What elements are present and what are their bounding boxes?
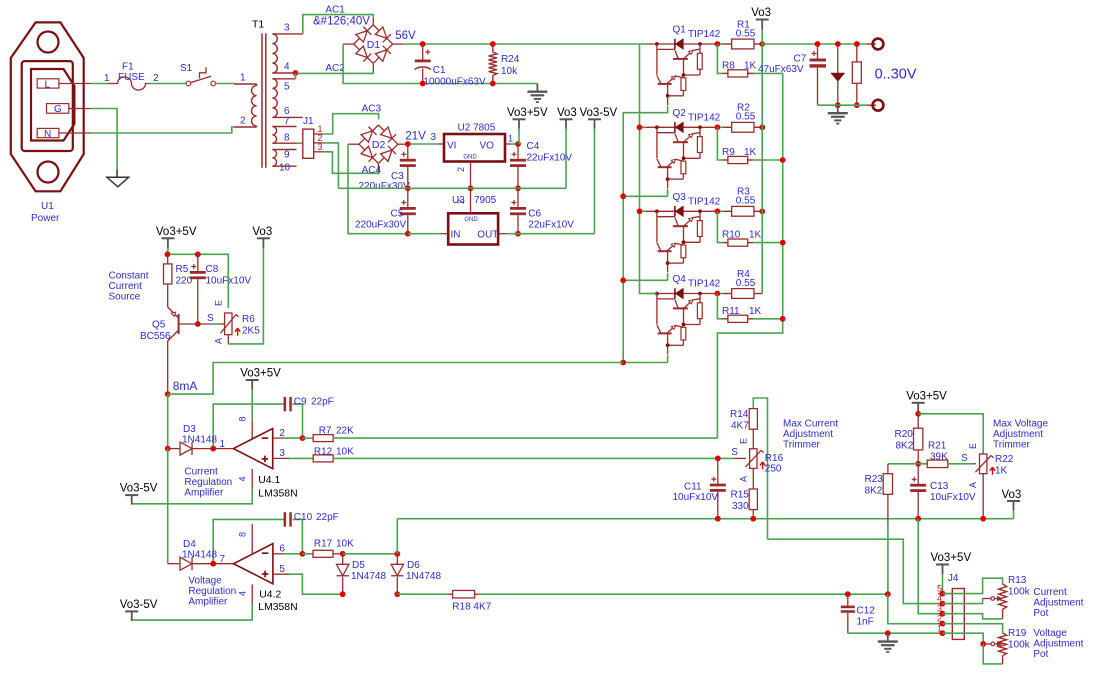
resistor R1 xyxy=(714,19,762,49)
svg-text:C1: C1 xyxy=(433,65,446,76)
wire 8mA node down to amplifiers xyxy=(167,394,169,449)
junction D6 bottom xyxy=(394,591,400,597)
svg-text:R23: R23 xyxy=(865,474,884,485)
svg-text:1nF: 1nF xyxy=(857,617,874,628)
svg-text:R11: R11 xyxy=(722,306,740,317)
svg-text:Voltage: Voltage xyxy=(1033,628,1067,639)
transistor Q1 TIP142 xyxy=(646,25,721,106)
svg-text:Pot: Pot xyxy=(1033,649,1048,660)
svg-text:D6: D6 xyxy=(407,560,420,571)
svg-text:GND: GND xyxy=(463,155,477,161)
svg-text:Adjustment: Adjustment xyxy=(1033,639,1083,650)
svg-text:Current: Current xyxy=(184,466,218,477)
svg-text:BC556: BC556 xyxy=(140,331,171,342)
svg-text:C10: C10 xyxy=(294,512,313,523)
svg-text:0.55: 0.55 xyxy=(736,28,756,39)
wire output top xyxy=(762,43,866,45)
wire U4.2 pin6 xyxy=(273,544,303,555)
wire U4.2 pin5 xyxy=(273,564,343,594)
resistor R20 xyxy=(895,414,923,464)
svg-text:C5: C5 xyxy=(391,209,404,220)
supply Vo3+5V for U4.1 xyxy=(240,368,281,441)
wire C12 to J4 pin1 xyxy=(848,632,938,634)
wire DC minus from D1 to ground rail xyxy=(343,44,537,83)
junction C1 top xyxy=(420,41,426,47)
svg-text:7: 7 xyxy=(284,116,290,127)
base rail xyxy=(623,106,667,363)
svg-text:C8: C8 xyxy=(206,264,219,275)
svg-text:8: 8 xyxy=(284,133,290,144)
svg-text:N: N xyxy=(44,129,51,140)
junction diode bottom xyxy=(835,102,841,108)
wire trimmer E to J4 pin4 xyxy=(768,539,939,603)
svg-text:R13: R13 xyxy=(1008,575,1027,586)
svg-text:1K: 1K xyxy=(749,306,762,317)
svg-text:0.55: 0.55 xyxy=(736,196,756,207)
svg-text:GND: GND xyxy=(464,217,478,223)
wire C13 node to J4 pin3 xyxy=(918,519,938,614)
regulator U2 7805 xyxy=(438,123,518,189)
svg-text:1K: 1K xyxy=(749,230,762,241)
svg-text:220uFx30V: 220uFx30V xyxy=(359,181,410,192)
svg-text:Vo3-5V: Vo3-5V xyxy=(120,483,158,495)
junction R1 right xyxy=(759,41,765,47)
svg-text:2: 2 xyxy=(279,428,285,439)
svg-text:39K: 39K xyxy=(930,452,948,463)
svg-text:Trimmer: Trimmer xyxy=(783,440,821,451)
svg-text:C13: C13 xyxy=(930,481,949,492)
svg-text:100k: 100k xyxy=(1008,587,1031,598)
wire U4.2 pin4 to Vo3-5V xyxy=(132,584,253,620)
wire 0V rail xyxy=(338,187,566,189)
svg-text:Voltage: Voltage xyxy=(188,576,222,587)
label voltage regulation amplifier xyxy=(188,576,236,608)
switch S1 xyxy=(180,63,216,86)
supply Vo3 above 0V rail xyxy=(557,107,577,189)
node label AC4 xyxy=(362,165,382,176)
svg-text:Q5: Q5 xyxy=(152,320,166,331)
junction C5 bottom xyxy=(405,231,411,237)
supply Vo3 right end xyxy=(1002,489,1022,519)
svg-text:R21: R21 xyxy=(928,441,947,452)
svg-text:AC3: AC3 xyxy=(362,103,382,114)
wire U3 OUT to Vo3-5V riser xyxy=(506,129,595,234)
junction R24 bottom xyxy=(490,81,496,87)
wire R19 bottom loop xyxy=(983,644,1002,664)
svg-text:D4: D4 xyxy=(183,539,196,550)
wire D5 to D6 xyxy=(343,553,398,555)
svg-text:D1: D1 xyxy=(367,39,381,51)
supply Vo3-5V right xyxy=(580,107,618,129)
svg-text:1: 1 xyxy=(104,73,110,84)
svg-text:10uFx10V: 10uFx10V xyxy=(930,492,976,503)
zener diode D6 xyxy=(391,551,441,594)
resistor R8 xyxy=(717,44,782,77)
svg-text:5: 5 xyxy=(284,82,290,93)
svg-text:100k: 100k xyxy=(1008,640,1031,651)
resistor R12 xyxy=(313,446,354,462)
wire L to fuse xyxy=(91,83,107,85)
svg-text:D3: D3 xyxy=(183,424,196,435)
transistor Q5 BC556 xyxy=(140,307,211,394)
svg-text:Q2: Q2 xyxy=(673,108,687,119)
capacitor C10 feedback xyxy=(213,512,339,564)
wire J1 pin3 to AC4 xyxy=(323,152,378,174)
earth ground symbol xyxy=(107,170,129,187)
svg-text:Q4: Q4 xyxy=(673,274,687,285)
junction sense rail R11 xyxy=(780,316,786,322)
svg-text:8mA: 8mA xyxy=(173,379,198,393)
diode D4 xyxy=(168,539,218,570)
wire U4.1 pin2 xyxy=(273,428,303,439)
svg-text:R16: R16 xyxy=(765,453,784,464)
svg-text:U2 7805: U2 7805 xyxy=(458,123,496,134)
junction J4 pin3 xyxy=(940,611,946,617)
capacitor C8 xyxy=(190,254,252,324)
svg-text:R20: R20 xyxy=(895,429,914,440)
svg-text:4: 4 xyxy=(237,591,247,596)
junction T1 pin4-pin5 xyxy=(293,70,299,79)
resistor R9 xyxy=(717,127,782,163)
svg-text:A: A xyxy=(968,482,978,488)
svg-text:C6: C6 xyxy=(528,209,541,220)
svg-text:10000uFx63V: 10000uFx63V xyxy=(423,76,486,87)
supply Vo3 top xyxy=(751,7,771,294)
svg-text:R24: R24 xyxy=(501,54,520,65)
protection diode at output xyxy=(831,44,845,105)
svg-text:22pF: 22pF xyxy=(316,512,339,523)
resistor R18 xyxy=(397,590,491,612)
svg-text:6: 6 xyxy=(279,544,285,555)
potentiometer R19 xyxy=(999,628,1031,664)
op-amp U4.2 xyxy=(213,524,297,613)
supply Vo3+5V for current source xyxy=(156,226,197,255)
junction C7 top xyxy=(815,41,821,47)
capacitor C3 xyxy=(359,144,416,192)
svg-text:3: 3 xyxy=(284,23,290,34)
wire Vo3+5V to R22 top xyxy=(918,414,983,454)
junction bleeder top xyxy=(854,41,860,47)
wire G to earth xyxy=(91,109,117,170)
svg-text:1K: 1K xyxy=(744,147,757,158)
svg-text:Vo3: Vo3 xyxy=(252,226,272,238)
label constant current source xyxy=(109,271,149,303)
svg-text:Adjustment: Adjustment xyxy=(993,429,1043,440)
node label AC3 xyxy=(362,103,382,114)
svg-text:2: 2 xyxy=(456,199,466,204)
wire R18 to voltage set node xyxy=(479,593,888,595)
junction pin6 R17 xyxy=(300,551,306,557)
junction U2 output xyxy=(515,141,521,147)
wire 8mA to pass transistor bases xyxy=(168,363,624,395)
svg-text:Vo3-5V: Vo3-5V xyxy=(120,599,158,611)
svg-text:8K2: 8K2 xyxy=(896,441,914,452)
svg-text:R10: R10 xyxy=(722,230,741,241)
svg-text:VI: VI xyxy=(447,140,456,151)
svg-text:10uFx10V: 10uFx10V xyxy=(673,492,719,503)
svg-text:R7: R7 xyxy=(319,425,332,436)
svg-text:0..30V: 0..30V xyxy=(875,66,917,82)
supply Vo3-5V for U4.1 xyxy=(120,483,158,505)
svg-text:TIP142: TIP142 xyxy=(688,197,721,208)
junction R1 left xyxy=(715,41,721,47)
capacitor C13 xyxy=(910,464,976,519)
wire U4.1 pin4 to Vo3-5V xyxy=(132,469,253,504)
svg-text:2: 2 xyxy=(240,116,246,127)
svg-text:AC4: AC4 xyxy=(362,165,382,176)
svg-text:R9: R9 xyxy=(722,147,735,158)
resistor R21 xyxy=(927,441,972,468)
svg-text:S1: S1 xyxy=(180,63,193,74)
svg-text:56V: 56V xyxy=(395,30,416,42)
junction U2 GND on 0V rail xyxy=(468,185,474,191)
svg-text:1K: 1K xyxy=(744,60,757,71)
svg-text:U4.2: U4.2 xyxy=(259,590,281,601)
svg-text:Vo3+5V: Vo3+5V xyxy=(507,107,548,119)
junction collector rail Q3 xyxy=(637,208,643,214)
capacitor C11 xyxy=(673,458,726,518)
svg-text:0.55: 0.55 xyxy=(736,278,756,289)
label max current adjustment trimmer xyxy=(783,419,838,451)
transistor Q3 TIP142 xyxy=(646,192,721,272)
svg-text:Vo3: Vo3 xyxy=(557,107,577,119)
wire fuse to switch xyxy=(149,83,186,85)
output ground symbol xyxy=(828,105,848,123)
svg-text:Vo3+5V: Vo3+5V xyxy=(931,552,972,564)
svg-text:8K2: 8K2 xyxy=(865,486,883,497)
svg-text:LM358N: LM358N xyxy=(258,489,297,500)
svg-text:2: 2 xyxy=(153,73,159,84)
diode D3 xyxy=(165,424,218,455)
trimmer R22 xyxy=(961,443,1014,519)
svg-text:TIP142: TIP142 xyxy=(688,113,721,124)
wire J1 pin1 to AC3 xyxy=(323,114,378,134)
wire D3 to D4 net xyxy=(167,449,169,564)
junction C4 bottom / 0V rail xyxy=(515,185,521,191)
svg-text:10K: 10K xyxy=(336,538,354,549)
label max voltage adjustment trimmer xyxy=(993,419,1048,451)
wire C5 to U3 IN xyxy=(408,233,442,235)
svg-text:1N4748: 1N4748 xyxy=(351,571,386,582)
capacitor C7 xyxy=(758,44,826,105)
label current regulation amplifier xyxy=(184,466,232,498)
svg-text:7905: 7905 xyxy=(474,195,497,206)
junction C11 bottom xyxy=(715,516,721,522)
svg-text:E: E xyxy=(213,300,223,306)
svg-text:A: A xyxy=(738,476,748,482)
svg-text:E: E xyxy=(968,443,978,449)
svg-text:Source: Source xyxy=(109,292,141,303)
wire R6 bottom to Vo3 xyxy=(228,248,263,344)
svg-text:4: 4 xyxy=(284,62,290,73)
wire J1 pin2 to 0V rail xyxy=(323,143,338,188)
svg-text:Constant: Constant xyxy=(109,271,149,282)
svg-text:C9: C9 xyxy=(294,397,307,408)
wire D2 minus to C5 rail xyxy=(348,144,408,234)
wire N to T1 pin2 xyxy=(91,127,233,133)
svg-text:VO: VO xyxy=(480,140,495,151)
fuse F1 xyxy=(104,62,159,91)
junction U4.2 input xyxy=(210,554,225,567)
capacitor C1 xyxy=(415,44,486,87)
svg-text:Vo3+5V: Vo3+5V xyxy=(156,226,197,238)
junction C1 bottom xyxy=(420,81,426,87)
svg-text:Amplifier: Amplifier xyxy=(188,597,228,608)
junction R22 bottom xyxy=(980,516,986,522)
junction C6 bottom / U3 out xyxy=(515,231,521,237)
wire 56V node xyxy=(393,30,640,44)
label 0..30V xyxy=(875,66,917,82)
wire AC1 net xyxy=(303,5,374,34)
wire Q5 base to trimmer R6 xyxy=(211,323,220,325)
svg-text:Current: Current xyxy=(109,281,143,292)
capacitor C9 feedback xyxy=(213,397,334,449)
wire 21V node xyxy=(398,131,438,145)
svg-text:S: S xyxy=(731,447,738,458)
T1 secondary winding pins 3-4 xyxy=(272,23,302,74)
wire J4 pin2 to R19 top xyxy=(943,624,1003,633)
junction base rail Q3 xyxy=(620,277,626,283)
supply Vo3 above R6 xyxy=(252,226,272,248)
supply Vo3+5V max voltage trimmer xyxy=(906,390,947,414)
svg-text:A: A xyxy=(213,338,223,344)
svg-text:4: 4 xyxy=(237,476,247,481)
svg-text:10k: 10k xyxy=(501,66,518,77)
sense rail from base resistors xyxy=(717,73,782,438)
wire output bottom xyxy=(818,104,867,106)
svg-text:1: 1 xyxy=(508,134,513,144)
transistor Q4 TIP142 xyxy=(646,274,721,355)
resistor R10 xyxy=(717,211,782,246)
wire Vo3 output sense line xyxy=(397,518,1013,520)
junction J4 pin1 xyxy=(940,630,946,636)
supply Vo3+5V above C4 xyxy=(507,107,548,144)
T1 primary winding pins 1-2 xyxy=(234,73,257,128)
svg-text:R15: R15 xyxy=(731,490,750,501)
junction R2 right xyxy=(759,124,765,130)
junction base rail Q2 xyxy=(620,193,626,199)
junction bleeder bottom xyxy=(854,102,860,108)
svg-text:Trimmer: Trimmer xyxy=(993,440,1031,451)
svg-text:C4: C4 xyxy=(527,141,540,152)
junction bottom ground xyxy=(885,630,891,636)
T1 secondary winding pins 5-6 xyxy=(272,79,302,118)
svg-text:1: 1 xyxy=(240,73,246,84)
svg-text:Q3: Q3 xyxy=(673,192,687,203)
junction voltage set node xyxy=(885,591,891,597)
junction C3 bottom xyxy=(405,185,411,191)
svg-text:250: 250 xyxy=(765,464,782,475)
svg-text:TIP142: TIP142 xyxy=(688,29,721,40)
svg-text:5: 5 xyxy=(279,564,285,575)
op-amp U4.1 xyxy=(213,416,297,499)
capacitor C5 xyxy=(355,188,416,233)
junction sense rail R10 xyxy=(780,240,786,246)
svg-text:22pF: 22pF xyxy=(311,397,334,408)
trimmer R6 xyxy=(207,300,260,344)
svg-text:3: 3 xyxy=(318,142,323,152)
junction R5 top xyxy=(165,251,171,257)
svg-text:Regulation: Regulation xyxy=(188,586,236,597)
junction Vo3+5V R20 xyxy=(915,411,921,417)
svg-text:D2: D2 xyxy=(372,139,386,151)
svg-text:U4.1: U4.1 xyxy=(258,475,280,486)
svg-text:R18 4K7: R18 4K7 xyxy=(452,602,491,613)
svg-text:U1: U1 xyxy=(41,201,54,212)
junction R3 left xyxy=(715,208,721,214)
svg-text:3: 3 xyxy=(431,132,437,143)
output terminal minus xyxy=(866,100,883,111)
resistor R7 xyxy=(303,425,355,441)
resistor R3 xyxy=(714,187,762,217)
resistor R17 xyxy=(302,538,354,557)
zener diode D5 xyxy=(337,551,387,594)
junction current set node C11 xyxy=(715,456,721,462)
capacitor C6 xyxy=(510,188,574,233)
regulator U3 7905 xyxy=(442,188,506,244)
svg-text:R12: R12 xyxy=(314,446,333,457)
R19 wiper from J4 pin1 xyxy=(943,633,1002,646)
svg-text:R14: R14 xyxy=(730,409,749,420)
junction 21V xyxy=(405,141,411,147)
wire R12 to current set node xyxy=(333,457,735,459)
svg-text:3: 3 xyxy=(279,448,285,459)
wire U4.1 pin3 xyxy=(273,448,314,459)
junction sense rail R9 xyxy=(780,157,786,163)
wire J4 pin5 to R13 top xyxy=(943,578,1003,593)
collector rail 56V xyxy=(640,44,657,294)
junction R24 top xyxy=(490,41,496,47)
bleeder resistor at output xyxy=(852,44,861,105)
label current adjustment pot xyxy=(1033,587,1083,619)
svg-text:T1: T1 xyxy=(252,20,264,31)
svg-text:C11: C11 xyxy=(684,482,702,493)
svg-text:21V: 21V xyxy=(405,131,426,143)
svg-text:Current: Current xyxy=(1033,587,1067,598)
svg-text:Max Voltage: Max Voltage xyxy=(993,419,1048,430)
junction C13 bottom xyxy=(915,516,921,522)
T1 secondary winding pins 7-8 xyxy=(272,116,296,144)
svg-text:47uFx63V: 47uFx63V xyxy=(758,64,804,75)
svg-text:R19: R19 xyxy=(1008,628,1027,639)
svg-text:Vo3-5V: Vo3-5V xyxy=(580,107,618,119)
svg-text:Regulation: Regulation xyxy=(184,477,232,488)
svg-text:D5: D5 xyxy=(352,560,365,571)
svg-text:LM358N: LM358N xyxy=(258,602,297,613)
svg-text:8: 8 xyxy=(237,532,247,537)
junction D5 bottom xyxy=(340,591,346,597)
svg-text:AC1: AC1 xyxy=(325,5,345,16)
wire S1 to T1 pin1 xyxy=(216,83,234,85)
wire R7 to sense rail xyxy=(333,437,718,439)
svg-text:Vo3+5V: Vo3+5V xyxy=(906,390,947,402)
junction C8 top xyxy=(195,251,201,257)
svg-text:10uFx10V: 10uFx10V xyxy=(206,276,252,287)
svg-text:Max Current: Max Current xyxy=(783,419,838,430)
transformer T1 xyxy=(252,20,266,168)
svg-text:Adjustment: Adjustment xyxy=(783,429,833,440)
svg-text:J1: J1 xyxy=(303,116,314,127)
svg-text:22uFx10V: 22uFx10V xyxy=(528,220,574,231)
power inlet connector U1 xyxy=(11,22,92,224)
resistor R14 xyxy=(730,398,768,539)
svg-text:R6: R6 xyxy=(242,314,255,325)
svg-text:R8: R8 xyxy=(722,60,735,71)
junction R2 left xyxy=(715,124,721,130)
svg-text:330: 330 xyxy=(732,501,749,512)
junction diode top xyxy=(835,41,841,47)
wire R20 bottom to R23 xyxy=(888,463,927,465)
